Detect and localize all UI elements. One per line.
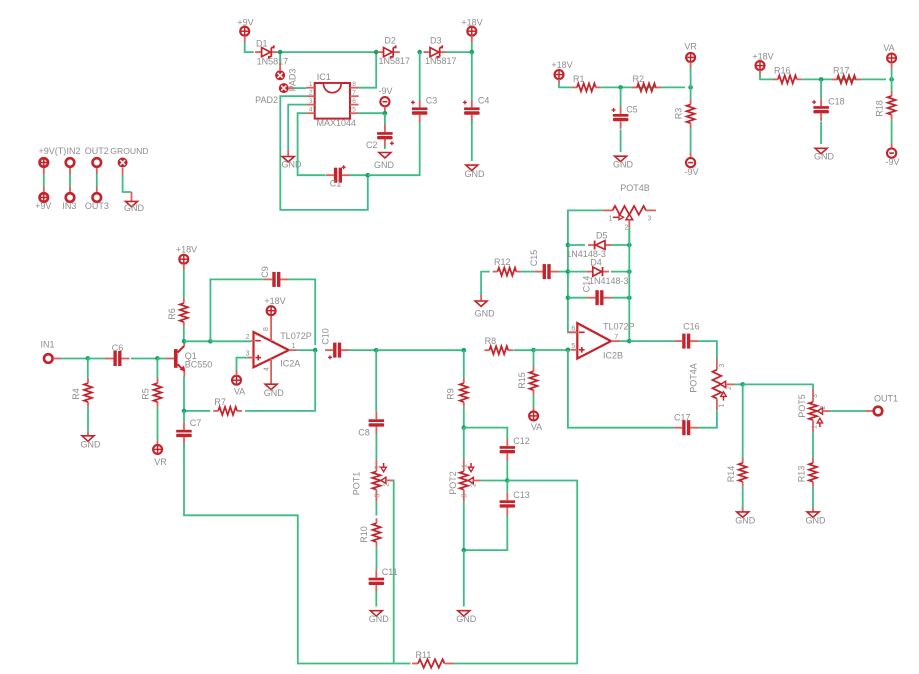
junction collector node xyxy=(182,339,187,344)
pad +9V(T) xyxy=(40,158,49,167)
junction rail C14 xyxy=(566,295,571,300)
junction IC2B output node xyxy=(627,339,632,344)
wire emitter down xyxy=(183,377,185,411)
junction rail D4 xyxy=(566,269,571,274)
diode D1 xyxy=(255,51,262,53)
capacitor C6 xyxy=(105,358,113,360)
svg-text:3: 3 xyxy=(375,493,382,497)
svg-text:C8: C8 xyxy=(358,428,370,438)
ground below GROUND pad xyxy=(126,201,138,206)
wire VA down xyxy=(891,63,893,69)
wire POT4B wiper down xyxy=(628,227,630,245)
svg-text:C17: C17 xyxy=(674,413,691,423)
svg-text:VA: VA xyxy=(234,387,245,397)
wire wiper node to POT5 xyxy=(743,384,813,389)
svg-text:2: 2 xyxy=(246,334,250,341)
svg-text:VA: VA xyxy=(531,422,542,432)
wire +18V node to C4 xyxy=(471,52,473,100)
supply +9V xyxy=(240,27,249,36)
capacitor C8 xyxy=(375,412,377,420)
svg-text:R3: R3 xyxy=(674,108,684,120)
wire POT2 pin3 down xyxy=(463,502,465,550)
wire VA to pin3 xyxy=(236,370,238,376)
wire node to C6 xyxy=(88,358,108,360)
svg-text:R11: R11 xyxy=(416,650,432,660)
wire R18 to -9V xyxy=(891,120,893,144)
svg-text:GND: GND xyxy=(369,614,390,624)
capacitor C9 xyxy=(264,278,272,280)
ground below R4 xyxy=(82,436,94,441)
resistor R10 xyxy=(376,518,378,523)
svg-text:OUT2: OUT2 xyxy=(85,146,109,156)
junction POT2 bottom node xyxy=(462,548,467,553)
wire R9 to POT2 node xyxy=(463,407,465,428)
supply VR xyxy=(686,53,695,62)
wire D4 row right xyxy=(611,271,629,273)
junction VR divider mid xyxy=(618,85,623,90)
junction pin5 node xyxy=(383,111,388,116)
wire base xyxy=(157,358,166,360)
junction R15 node xyxy=(531,348,536,353)
wire C8 to POT1 xyxy=(375,433,377,460)
wire VR down xyxy=(690,62,692,68)
svg-text:IN2: IN2 xyxy=(67,146,81,156)
capacitor C5 xyxy=(620,107,622,115)
wire pin2 U-loop xyxy=(280,96,368,210)
wire R4 to GND xyxy=(87,407,89,432)
svg-text:C1: C1 xyxy=(330,179,342,189)
svg-text:R16: R16 xyxy=(774,66,791,76)
svg-text:GND: GND xyxy=(465,169,486,179)
diode D3 xyxy=(424,51,431,53)
ground below C4 xyxy=(466,165,478,170)
ground below R14 xyxy=(737,512,749,517)
wire C12 to wiper node xyxy=(506,460,508,480)
svg-text:GND: GND xyxy=(613,160,634,170)
resistor R6 xyxy=(183,298,185,303)
svg-text:D1: D1 xyxy=(256,39,268,49)
supply +18V VR divider xyxy=(555,70,564,79)
junction pin5 node xyxy=(566,348,571,353)
pad +9V xyxy=(40,193,49,202)
wire R8 to R15 node xyxy=(514,349,534,351)
svg-text:C5: C5 xyxy=(626,105,638,115)
svg-text:1N5817: 1N5817 xyxy=(379,56,411,66)
potentiometer POT4B xyxy=(603,209,612,211)
wire POT2 wiper to node xyxy=(481,480,508,482)
wire R15 top xyxy=(533,350,535,366)
svg-text:1: 1 xyxy=(292,343,296,350)
svg-text:IC2A: IC2A xyxy=(280,359,300,369)
svg-text:4: 4 xyxy=(309,107,313,114)
ground below C5 xyxy=(615,156,627,161)
wire R16-R17 row xyxy=(802,78,886,80)
svg-text:C10: C10 xyxy=(320,328,330,345)
supply +18V above R6 xyxy=(179,255,188,264)
svg-text:C4: C4 xyxy=(478,96,490,106)
wire IN1 to node xyxy=(53,358,60,360)
pad OUT1 xyxy=(874,407,883,416)
svg-text:+9V(T): +9V(T) xyxy=(39,146,67,156)
resistor R7 xyxy=(213,410,218,412)
wire R12 to C15 xyxy=(521,271,534,273)
wire pin5 node to C2 xyxy=(384,113,386,125)
supply VA below R15 xyxy=(529,411,538,420)
svg-text:+18V: +18V xyxy=(551,60,572,70)
svg-text:GND: GND xyxy=(735,516,756,526)
svg-text:GND: GND xyxy=(475,309,496,319)
svg-text:2: 2 xyxy=(726,386,733,390)
junction right rail C14 xyxy=(627,295,632,300)
wire D1-D2 rail xyxy=(279,51,377,53)
wire C15 to rail xyxy=(559,271,568,273)
svg-text:1N5817: 1N5817 xyxy=(425,56,457,66)
supply VA IC2A pin3 xyxy=(232,376,241,385)
wire R14 to GND xyxy=(742,487,744,508)
svg-text:+18V: +18V xyxy=(461,18,482,28)
wire C3 top xyxy=(419,52,421,100)
svg-text:C7: C7 xyxy=(190,418,202,428)
svg-text:GND: GND xyxy=(81,440,102,450)
wire R10 to C11 xyxy=(376,547,378,570)
wire IC2A output xyxy=(297,349,315,351)
wire C8 node right xyxy=(376,349,464,351)
wire output to C16 xyxy=(629,340,674,342)
svg-text:6: 6 xyxy=(571,325,575,332)
svg-text:POT4B: POT4B xyxy=(620,183,650,193)
svg-text:1: 1 xyxy=(309,81,313,88)
wire right rail xyxy=(628,227,630,341)
resistor R13 xyxy=(812,458,814,463)
wire C8 node down xyxy=(375,350,377,412)
svg-text:C18: C18 xyxy=(828,97,845,107)
svg-text:1: 1 xyxy=(375,465,382,469)
wire -9V to pin5 node xyxy=(384,107,386,114)
svg-text:VA: VA xyxy=(883,43,894,53)
ground below R13 xyxy=(807,512,819,517)
capacitor C12 xyxy=(506,439,508,447)
resistor R4 xyxy=(87,378,89,383)
svg-text:-9V: -9V xyxy=(684,167,698,177)
svg-text:D3: D3 xyxy=(430,36,442,46)
svg-text:TL072P: TL072P xyxy=(280,331,312,341)
wire R1-R2 row xyxy=(601,86,685,88)
junction POT4A wiper node xyxy=(740,382,745,387)
svg-text:GND: GND xyxy=(124,203,145,213)
svg-text:GND: GND xyxy=(806,516,827,526)
resistor R14 xyxy=(742,458,744,463)
wire R9 top xyxy=(463,350,465,378)
svg-text:GND: GND xyxy=(374,160,395,170)
junction POT2 top node xyxy=(462,425,467,430)
svg-text:4: 4 xyxy=(263,367,270,371)
capacitor C18 xyxy=(820,99,822,107)
wire pin3 to GND xyxy=(288,105,306,150)
resistor R12 xyxy=(493,271,498,273)
svg-text:POT4A: POT4A xyxy=(689,363,699,393)
wire D5 row left xyxy=(568,244,585,246)
svg-text:R13: R13 xyxy=(796,466,806,483)
resistor R17 xyxy=(832,78,837,80)
wire POT4A wiper to node xyxy=(735,383,743,385)
wire wiper node right xyxy=(454,481,578,664)
supply -9V VA divider xyxy=(887,149,896,158)
svg-text:R15: R15 xyxy=(517,372,527,389)
ground R12 xyxy=(475,301,487,306)
svg-text:BC550: BC550 xyxy=(185,360,213,370)
svg-text:R1: R1 xyxy=(573,74,585,84)
wire C11 to GND xyxy=(375,592,377,607)
wire +18V to R16 xyxy=(759,70,761,74)
svg-text:R9: R9 xyxy=(446,388,456,400)
wire R15 node to pin5 xyxy=(534,349,568,351)
resistor R2 xyxy=(632,86,637,88)
resistor R11 xyxy=(412,663,418,665)
wire wiper node down R14 xyxy=(742,384,744,458)
svg-text:R18: R18 xyxy=(875,100,885,117)
op-amp IC2B xyxy=(577,323,611,359)
wire POT4A pin1 to C17 xyxy=(698,410,717,428)
wire R12 gnd corner xyxy=(481,272,490,295)
svg-text:R6: R6 xyxy=(167,308,177,320)
svg-text:2: 2 xyxy=(309,90,313,97)
wire pin5 node down to C17 xyxy=(568,350,674,428)
junction +18V node xyxy=(470,50,475,55)
supply +18V IC2A pin8 xyxy=(267,306,276,315)
wire R5 to VR xyxy=(157,407,159,441)
svg-text:5: 5 xyxy=(352,107,356,114)
wire C2 to GND xyxy=(384,146,386,149)
svg-text:PAD2: PAD2 xyxy=(255,95,278,105)
svg-text:1: 1 xyxy=(462,464,469,468)
svg-text:R7: R7 xyxy=(214,397,226,407)
resistor R18 xyxy=(891,91,893,96)
wire D4 row left xyxy=(568,271,586,273)
wire IN2-IN3 xyxy=(69,174,71,187)
svg-text:6: 6 xyxy=(352,98,356,105)
junction R9 node xyxy=(462,348,467,353)
svg-text:2: 2 xyxy=(383,482,390,486)
resistor R1 xyxy=(572,86,577,88)
wire to C18 xyxy=(820,79,822,98)
resistor R9 xyxy=(463,378,465,383)
wire C9 loop right xyxy=(288,279,315,345)
svg-text:R10: R10 xyxy=(359,526,369,543)
capacitor C14 xyxy=(587,297,595,299)
capacitor C1 xyxy=(326,174,334,176)
capacitor C16 xyxy=(674,340,682,342)
transistor Q1 xyxy=(174,349,178,368)
svg-text:7: 7 xyxy=(614,334,618,341)
resistor R5 xyxy=(157,378,159,383)
svg-text:3: 3 xyxy=(246,351,250,358)
svg-text:1N5817: 1N5817 xyxy=(257,57,289,67)
op-amp IC2A xyxy=(254,332,289,367)
svg-text:2: 2 xyxy=(471,483,478,487)
svg-text:5: 5 xyxy=(571,343,575,350)
junction VA divider mid xyxy=(819,77,824,82)
svg-text:8: 8 xyxy=(352,81,356,88)
wire C18 to GND xyxy=(820,122,822,145)
wire IC2B output xyxy=(620,340,629,342)
junction base node xyxy=(155,356,160,361)
wire C7 to bottom rail xyxy=(184,444,411,664)
wire pin8 up to rail xyxy=(359,52,377,88)
svg-text:VR: VR xyxy=(154,457,167,467)
wire pin4 to C1 xyxy=(298,113,326,175)
op-amp IC1 MAX1044 xyxy=(315,83,350,119)
svg-text:+9V: +9V xyxy=(35,201,51,211)
capacitor C17 xyxy=(674,427,682,429)
junction pin8 tap xyxy=(374,50,379,55)
wire POT1 wiper down xyxy=(392,480,394,663)
junction C1 node xyxy=(366,173,371,178)
svg-text:2: 2 xyxy=(625,225,629,232)
svg-text:IN1: IN1 xyxy=(41,340,55,350)
ground below C11 xyxy=(370,611,382,616)
pad IN2 xyxy=(66,158,75,167)
wire D3 to +18V xyxy=(446,51,472,53)
wire +18V down xyxy=(471,36,473,42)
svg-text:GND: GND xyxy=(264,388,285,398)
wire C10 to C8 node xyxy=(349,349,376,351)
capacitor C4 xyxy=(471,100,473,108)
svg-text:3: 3 xyxy=(309,98,313,105)
svg-text:3: 3 xyxy=(719,363,726,367)
ground below C2 xyxy=(379,153,391,158)
svg-text:C13: C13 xyxy=(513,490,530,500)
supply VR below R5 xyxy=(153,445,162,454)
wire POT2 pin1 xyxy=(463,428,465,460)
svg-text:IC1: IC1 xyxy=(317,72,331,82)
wire node to C12 xyxy=(464,428,508,439)
svg-text:C6: C6 xyxy=(112,343,124,353)
svg-text:+18V: +18V xyxy=(752,52,773,62)
svg-text:R4: R4 xyxy=(71,388,81,400)
pad GROUND xyxy=(118,158,128,168)
svg-text:8: 8 xyxy=(263,327,270,331)
svg-text:+18V: +18V xyxy=(264,296,285,306)
pad IN1 xyxy=(44,354,53,363)
supply VA xyxy=(887,54,896,63)
wire to pin2 xyxy=(210,340,251,342)
wire C14 row right xyxy=(611,297,629,299)
wire VA node to R18 xyxy=(891,79,893,91)
capacitor C7 xyxy=(183,422,185,430)
svg-text:POT2: POT2 xyxy=(448,471,458,495)
capacitor C15 xyxy=(535,271,543,273)
capacitor C10 xyxy=(325,349,333,351)
wire to PAD3 xyxy=(279,55,281,63)
junction rail D5 xyxy=(566,243,571,248)
supply +18V main xyxy=(467,27,476,36)
wire R7 to emitter node xyxy=(184,410,210,412)
wire C6 to node2 xyxy=(131,358,157,360)
wire C1 to node xyxy=(350,174,368,176)
svg-text:3: 3 xyxy=(812,394,819,398)
supply -9V VR divider xyxy=(686,158,695,167)
wire C16 to POT4A xyxy=(698,341,717,358)
svg-text:OUT1: OUT1 xyxy=(874,394,898,404)
resistor R8 xyxy=(484,349,489,351)
svg-text:C12: C12 xyxy=(513,436,530,446)
resistor R15 xyxy=(533,366,535,371)
supply -9V at IC1 xyxy=(380,97,389,106)
svg-text:R8: R8 xyxy=(485,336,497,346)
capacitor C13 xyxy=(506,493,508,501)
svg-text:POT1: POT1 xyxy=(352,472,362,496)
wire pin5 node xyxy=(359,112,385,114)
wire OUT2-OUT3 xyxy=(96,174,98,187)
junction C9 tap xyxy=(208,339,213,344)
wire C9 loop left xyxy=(210,279,264,341)
junction emitter node xyxy=(182,409,187,414)
svg-text:1: 1 xyxy=(719,403,726,407)
svg-text:1: 1 xyxy=(609,216,613,223)
wire C13 to bottom xyxy=(464,514,508,550)
diode D2 xyxy=(377,51,384,53)
svg-text:1: 1 xyxy=(812,425,819,429)
potentiometer POT2 xyxy=(463,460,465,472)
pad PAD2 xyxy=(279,83,289,93)
svg-text:GND: GND xyxy=(282,160,303,170)
junction D1 output node xyxy=(278,50,283,55)
wire C1 node to C3 column xyxy=(368,121,420,176)
wire left feedback rail xyxy=(568,210,603,332)
wire +9V(T)-+9V xyxy=(43,174,45,187)
junction VR node xyxy=(688,85,693,90)
wire D5 row right xyxy=(612,244,630,246)
wire output to R7 xyxy=(245,350,315,411)
junction D2-D3 node xyxy=(417,50,422,55)
svg-text:OUT3: OUT3 xyxy=(85,201,109,211)
pad PAD3 xyxy=(275,70,285,80)
junction IN1 node xyxy=(86,356,91,361)
svg-text:R12: R12 xyxy=(494,257,511,267)
wire R3 to -9V xyxy=(690,128,692,153)
wire node to C13 xyxy=(506,481,508,493)
potentiometer POT5 xyxy=(812,389,814,402)
wire R15 to VA xyxy=(533,395,535,408)
svg-text:D4: D4 xyxy=(590,258,602,268)
svg-text:2: 2 xyxy=(820,405,827,409)
junction right rail D5 xyxy=(627,243,632,248)
ground IC2A pin4 xyxy=(265,384,277,389)
capacitor C11 xyxy=(375,570,377,578)
wire C4 to GND xyxy=(471,120,473,161)
wire to C5 xyxy=(620,87,622,106)
svg-text:MAX1044: MAX1044 xyxy=(317,118,357,128)
ground POT2 column xyxy=(458,611,470,616)
svg-text:R14: R14 xyxy=(726,466,736,483)
resistor R16 xyxy=(773,78,778,80)
svg-text:GND: GND xyxy=(456,614,477,624)
ground below C18 xyxy=(815,148,827,153)
svg-text:D5: D5 xyxy=(596,231,608,241)
svg-text:C14: C14 xyxy=(582,276,592,293)
wire +18V to R1 xyxy=(558,79,560,83)
svg-text:R5: R5 xyxy=(141,388,151,400)
svg-text:VR: VR xyxy=(684,42,697,52)
wire +9V to D1 xyxy=(244,36,246,42)
pad OUT3 xyxy=(93,193,102,202)
svg-text:TL072P: TL072P xyxy=(603,322,635,332)
wire to GND xyxy=(463,550,465,606)
svg-text:C11: C11 xyxy=(382,567,398,577)
svg-text:D2: D2 xyxy=(384,36,396,46)
capacitor C3 xyxy=(419,100,421,108)
wire R13 to GND xyxy=(812,487,814,508)
